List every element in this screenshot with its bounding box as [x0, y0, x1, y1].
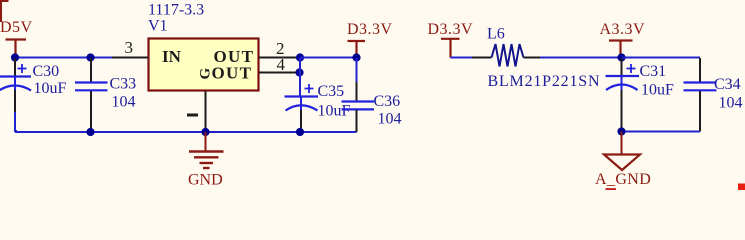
capacitor C31: [606, 58, 675, 132]
ground A_GND symbol: [595, 132, 651, 189]
svg-text:OUT: OUT: [212, 64, 253, 83]
wire pin2 junction to D3.3V port: [300, 57, 357, 59]
wire L6 to A3.3V: [540, 57, 622, 59]
node junction A3.3V / C31: [617, 53, 625, 61]
svg-text:IN: IN: [162, 47, 182, 66]
node junction C31 bottom / A_GND: [617, 127, 625, 135]
svg-text:4: 4: [277, 55, 286, 74]
wire bottom rail left section: [15, 131, 357, 133]
wire bottom rail right section: [622, 131, 701, 133]
svg-text:C33: C33: [110, 76, 137, 93]
svg-text:C35: C35: [318, 83, 345, 100]
svg-text:1117-3.3: 1117-3.3: [148, 2, 204, 19]
svg-text:D3.3V: D3.3V: [428, 21, 474, 38]
power port A3.3V: [600, 21, 646, 58]
op-amp V1 1117-3.3 regulator body: [148, 2, 259, 91]
node junction C33 top: [86, 53, 94, 61]
ground GND symbol: [188, 132, 224, 189]
sheet border corner top-left: [0, 0, 9, 22]
svg-text:C34: C34: [714, 76, 741, 93]
svg-text:10uF: 10uF: [318, 103, 351, 120]
pin 2 (OUT): [259, 39, 300, 58]
svg-text:A3.3V: A3.3V: [600, 21, 646, 38]
svg-text:GND: GND: [188, 172, 223, 189]
wire A3.3V junction to C34: [622, 57, 701, 59]
node junction D3.3V / C36: [352, 53, 360, 61]
svg-text:C36: C36: [374, 93, 401, 110]
capacitor C30: [0, 58, 67, 114]
pin 1 (GND) with dash marker: [187, 91, 206, 132]
node junction regulator GND at bottom rail: [201, 128, 209, 136]
pin 4 (OUT): [259, 55, 299, 74]
svg-text:A_GND: A_GND: [595, 171, 651, 188]
capacitor C34: [684, 58, 743, 132]
svg-text:3: 3: [125, 38, 134, 57]
node junction pin2 wire: [296, 53, 304, 61]
node junction C33 bottom: [86, 128, 94, 136]
power port D3.3V left: [347, 21, 393, 58]
svg-text:104: 104: [719, 95, 743, 112]
pin 3 (IN): [112, 38, 148, 58]
svg-text:104: 104: [112, 94, 136, 111]
svg-text:C30: C30: [33, 63, 60, 80]
capacitor C35: [285, 83, 351, 132]
wire D3.3V to L6: [451, 57, 473, 59]
wire vertical connecting pin2 pin4 down to C35: [299, 58, 301, 97]
node junction pin4 wire: [295, 68, 303, 76]
sheet artifact red square bottom-right: [738, 184, 745, 191]
power port D3.3V right: [428, 21, 474, 58]
power port D5V: [0, 19, 33, 58]
svg-text:V1: V1: [148, 18, 168, 35]
svg-text:C31: C31: [640, 63, 667, 80]
svg-text:BLM21P221SN: BLM21P221SN: [488, 73, 601, 90]
inductor L6 ferrite bead: [472, 26, 600, 91]
svg-text:104: 104: [378, 111, 402, 128]
capacitor C33: [75, 58, 136, 132]
node junction at D5V / C30: [11, 53, 19, 61]
svg-text:10uF: 10uF: [641, 82, 674, 99]
wire C30 down to bottom rail: [15, 112, 17, 131]
svg-text:D5V: D5V: [0, 19, 33, 36]
svg-text:G: G: [198, 68, 214, 80]
svg-text:L6: L6: [487, 26, 505, 43]
capacitor C36: [342, 58, 402, 132]
svg-text:D3.3V: D3.3V: [347, 21, 393, 38]
sheet artifact red bar below A_GND: [606, 188, 617, 190]
node junction C35 bottom: [296, 128, 304, 136]
wire D5V to regulator pin3: [15, 57, 113, 59]
svg-text:10uF: 10uF: [34, 80, 67, 97]
